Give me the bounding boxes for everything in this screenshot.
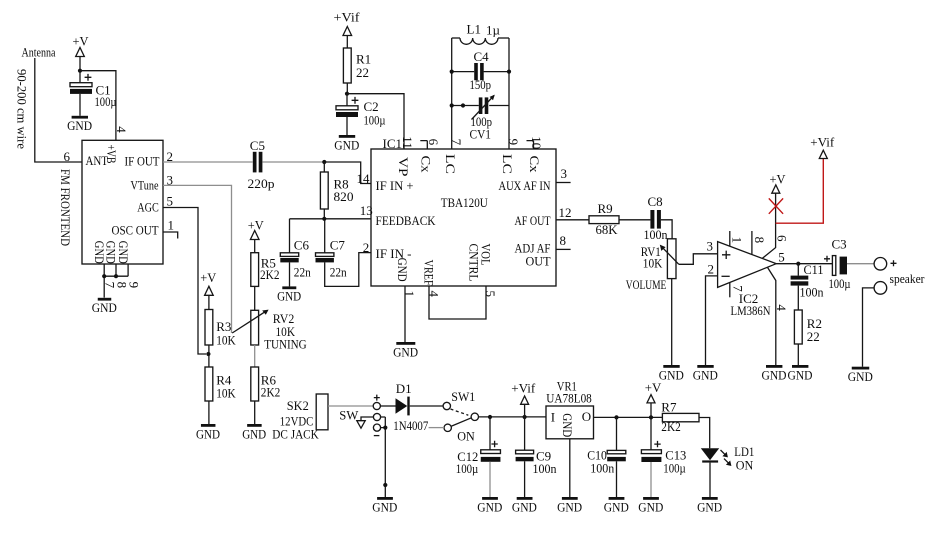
node +V/C1 junction xyxy=(78,69,82,73)
svg-text:GND: GND xyxy=(693,367,718,382)
capacitor C5 xyxy=(248,138,275,191)
svg-text:2K2: 2K2 xyxy=(260,267,280,282)
wire RV2 to R6 xyxy=(254,345,256,367)
svg-text:8: 8 xyxy=(560,233,567,248)
antenna wire label 90-200 cm wire xyxy=(15,69,30,149)
red X cut mark xyxy=(769,198,783,213)
svg-text:14: 14 xyxy=(357,171,371,186)
capacitor C6 xyxy=(280,219,298,287)
wire R7 to LED xyxy=(699,418,710,449)
speaker terminals xyxy=(874,258,896,295)
regulator VR1 UA78L08 box xyxy=(546,406,594,439)
VR1 pin labels xyxy=(551,409,591,437)
IC1 ADJ AF OUT label xyxy=(515,233,567,268)
svg-text:2K2: 2K2 xyxy=(261,385,281,400)
svg-text:GND: GND xyxy=(395,258,410,282)
IC1 AF OUT label xyxy=(515,205,572,228)
svg-text:7: 7 xyxy=(449,139,464,146)
wire frontend gnd pins xyxy=(104,264,128,298)
svg-text:+V: +V xyxy=(248,217,265,232)
svg-text:22: 22 xyxy=(356,65,369,80)
ground (R2) xyxy=(788,365,813,382)
svg-text:C3: C3 xyxy=(832,237,847,252)
IC2 pin 3 label xyxy=(707,238,714,253)
wire RV1 wiper to pin3 xyxy=(679,254,718,264)
node C10 rail xyxy=(614,415,618,419)
op-amp IC1 TBA120U box xyxy=(371,149,556,286)
svg-text:4: 4 xyxy=(114,126,129,133)
svg-text:VOLUME: VOLUME xyxy=(626,277,667,292)
svg-text:+Vif: +Vif xyxy=(810,134,835,149)
svg-text:100n: 100n xyxy=(644,227,668,242)
capacitor C8 xyxy=(644,194,668,242)
svg-text:4: 4 xyxy=(774,304,789,311)
svg-text:CV1: CV1 xyxy=(470,127,492,142)
wire SW1 lower stub xyxy=(429,427,444,429)
svg-text:SK2: SK2 xyxy=(287,398,309,413)
svg-text:GND: GND xyxy=(277,289,301,304)
jack minus terminal xyxy=(373,424,380,436)
ground (C13) xyxy=(638,497,663,514)
svg-text:GND: GND xyxy=(512,499,537,514)
svg-text:+Vif: +Vif xyxy=(334,10,361,25)
svg-text:GND: GND xyxy=(638,499,663,514)
svg-text:I: I xyxy=(551,410,555,425)
svg-text:5: 5 xyxy=(778,249,785,264)
svg-text:9: 9 xyxy=(127,282,142,289)
svg-text:speaker: speaker xyxy=(890,271,926,286)
wire IC2 output xyxy=(776,263,832,265)
svg-text:GND: GND xyxy=(116,241,131,264)
capacitor C1 xyxy=(70,71,92,116)
svg-text:GND: GND xyxy=(848,369,873,384)
frontend VTune label xyxy=(131,178,159,193)
resistor R6 xyxy=(251,367,259,424)
power +Vif supply (R1) xyxy=(334,10,361,49)
node CV1 left b xyxy=(461,103,465,107)
wire antenna xyxy=(35,58,82,162)
node R8/C6/C7/pin13 xyxy=(322,217,326,221)
power +V supply (R3) xyxy=(200,270,217,310)
wire AGC to R3/R4 node xyxy=(163,208,206,355)
wire +V to frontend pin4 xyxy=(80,71,116,141)
connector SK2 DC jack body xyxy=(316,394,328,430)
capacitor C10 xyxy=(607,417,626,497)
capacitor C4 xyxy=(452,49,509,92)
power +Vif supply (rail) xyxy=(511,381,536,418)
svg-text:1: 1 xyxy=(168,218,175,233)
node R3/R4/AGC xyxy=(206,352,210,356)
svg-text:10K: 10K xyxy=(216,332,236,347)
svg-text:AGC: AGC xyxy=(137,200,159,215)
R1 value labels xyxy=(356,52,371,81)
svg-text:GND: GND xyxy=(697,499,722,514)
IC1 pin 14 label xyxy=(357,171,371,186)
LED LD1 xyxy=(701,448,719,497)
potentiometer RV2 xyxy=(232,310,268,345)
svg-text:UA78L08: UA78L08 xyxy=(546,391,592,406)
ground (C2) xyxy=(334,135,359,152)
capacitor C12 xyxy=(481,417,501,497)
svg-text:C6: C6 xyxy=(294,238,310,253)
ground (R4) xyxy=(196,424,220,441)
IC2 pin 8 stub xyxy=(752,231,767,255)
wire IC2 pin4 to ground xyxy=(768,267,790,365)
ground (C6) xyxy=(277,286,301,303)
R2 value labels xyxy=(807,316,822,344)
svg-text:13: 13 xyxy=(360,203,373,218)
power +V supply (C1) xyxy=(73,34,90,71)
wire IC2 pin2 to ground xyxy=(706,276,718,365)
ground (IC2 pin4) xyxy=(762,365,787,382)
IC1 pin 9 LC xyxy=(500,139,521,174)
svg-text:C7: C7 xyxy=(330,238,346,253)
wire pin12 to R9 xyxy=(556,219,589,221)
svg-text:GND: GND xyxy=(334,137,359,152)
power +Vif supply (IC2) xyxy=(810,134,835,158)
svg-text:GND: GND xyxy=(242,426,266,441)
svg-text:C8: C8 xyxy=(648,194,663,209)
svg-text:AUX AF IN: AUX AF IN xyxy=(499,178,551,193)
IC2 pin 2 label xyxy=(708,261,715,276)
svg-text:Cx: Cx xyxy=(527,156,542,174)
C11 labels xyxy=(800,262,824,300)
frontend GND pin labels xyxy=(92,241,131,264)
node CV1 left a xyxy=(450,103,454,107)
svg-text:LC: LC xyxy=(443,154,458,174)
resistor R3 xyxy=(205,310,213,368)
FM FRONTEND label xyxy=(58,169,73,246)
wire node to IC1 pin14 xyxy=(324,162,371,184)
svg-text:+V: +V xyxy=(73,34,90,49)
svg-text:6: 6 xyxy=(426,139,441,146)
svg-text:TUNING: TUNING xyxy=(264,336,307,351)
wire tank left xyxy=(451,38,453,149)
jack plus terminal xyxy=(373,395,380,410)
resistor R2 xyxy=(794,310,802,365)
svg-text:C4: C4 xyxy=(474,49,490,64)
svg-text:OUT: OUT xyxy=(526,253,551,268)
node C12 rail xyxy=(488,415,492,419)
svg-text:C11: C11 xyxy=(804,262,824,277)
R4 value labels xyxy=(216,372,236,400)
ground (RV1) xyxy=(659,365,684,382)
C9 labels xyxy=(533,448,557,476)
IC1 FEEDBACK label xyxy=(376,213,437,228)
wire C3 to speaker xyxy=(847,263,874,265)
svg-text:C5: C5 xyxy=(250,138,265,153)
variable capacitor CV1 xyxy=(452,95,509,142)
capacitor C13 xyxy=(641,417,661,497)
wire VR1 gnd xyxy=(569,439,571,497)
IC1 pin 7 LC xyxy=(443,139,464,174)
svg-text:1N4007: 1N4007 xyxy=(393,418,428,433)
C1 value labels xyxy=(95,83,117,109)
wire OSC OUT stub xyxy=(163,232,178,239)
svg-text:100µ: 100µ xyxy=(364,112,386,127)
frontend AGC label xyxy=(137,200,159,215)
switch SW1 xyxy=(443,389,478,443)
VR1 labels xyxy=(546,379,592,406)
svg-text:2: 2 xyxy=(708,261,715,276)
svg-text:Cx: Cx xyxy=(418,156,433,174)
svg-text:100µ: 100µ xyxy=(456,461,479,476)
svg-text:8: 8 xyxy=(752,237,767,244)
resistor R9 xyxy=(589,201,619,237)
C13 labels xyxy=(663,447,686,475)
LED arrows xyxy=(721,450,732,466)
RV1 labels xyxy=(626,244,667,292)
svg-text:100µ: 100µ xyxy=(663,461,686,476)
frontend pin 6 label xyxy=(64,149,71,164)
R3 value labels xyxy=(216,319,236,348)
svg-text:R9: R9 xyxy=(598,201,613,216)
ground (IC1 pin1) xyxy=(393,342,418,359)
svg-text:+V: +V xyxy=(645,380,662,395)
wire R1 to IC1 pin 11 xyxy=(347,94,404,149)
antenna label xyxy=(22,45,56,60)
power +V supply (rail) xyxy=(645,380,662,417)
svg-text:LM386N: LM386N xyxy=(731,303,772,318)
frontend OSC OUT label xyxy=(112,223,159,238)
inductor L1 xyxy=(452,22,509,45)
svg-text:LC: LC xyxy=(500,154,515,174)
speaker label xyxy=(890,271,926,286)
ground (C12) xyxy=(477,497,502,514)
svg-text:O: O xyxy=(582,409,591,424)
capacitor C2 xyxy=(336,94,358,135)
ground (C9) xyxy=(512,497,537,514)
svg-text:DC JACK: DC JACK xyxy=(272,427,319,442)
frontend pin 2 label xyxy=(167,149,174,164)
IC2 pin 5 label xyxy=(778,249,785,264)
C10 labels xyxy=(587,448,614,476)
wire IC1 pin3 stub xyxy=(556,182,571,184)
svg-text:5: 5 xyxy=(483,291,498,298)
IC2 labels xyxy=(731,291,772,318)
svg-text:10: 10 xyxy=(529,136,544,149)
node jack gnd xyxy=(383,483,387,487)
IC1 IF IN+ label xyxy=(360,178,414,218)
IC1 IF IN- label xyxy=(363,240,412,261)
svg-text:TBA120U: TBA120U xyxy=(441,195,489,210)
wire C5 to R8 node xyxy=(262,161,324,163)
ground (C10) xyxy=(604,497,629,514)
svg-text:100µ: 100µ xyxy=(95,94,117,109)
svg-text:D1: D1 xyxy=(396,381,412,396)
ground (IC2 pin2) xyxy=(693,365,718,382)
ground (LD1) xyxy=(697,497,722,514)
power +V supply (IC2) xyxy=(770,171,787,193)
capacitor C7 xyxy=(316,219,372,287)
svg-text:IF OUT: IF OUT xyxy=(125,154,160,169)
svg-text:+Vif: +Vif xyxy=(511,381,536,396)
IC1 VOL CNTRL pin 5 rotated labels xyxy=(467,244,498,298)
svg-text:+VB: +VB xyxy=(104,145,119,164)
svg-text:ON: ON xyxy=(457,428,475,443)
SK2 labels xyxy=(272,398,319,442)
red wire pin6 to +Vif xyxy=(776,159,824,224)
svg-text:10K: 10K xyxy=(643,256,663,271)
wire RV1 to ground xyxy=(671,279,673,365)
node output/C11 xyxy=(796,262,800,266)
svg-text:3: 3 xyxy=(561,166,568,181)
svg-text:CNTRL: CNTRL xyxy=(467,244,482,282)
capacitor C9 xyxy=(516,417,534,497)
svg-text:L1: L1 xyxy=(467,22,481,37)
svg-text:22n: 22n xyxy=(294,264,311,279)
svg-text:GND: GND xyxy=(762,367,787,382)
node C4 left xyxy=(450,70,454,74)
IC2 pin 6 lead xyxy=(762,193,789,259)
power +V supply (R5) xyxy=(248,217,265,252)
svg-text:6: 6 xyxy=(64,149,71,164)
svg-text:Antenna: Antenna xyxy=(22,45,56,60)
LD1 labels xyxy=(734,444,754,473)
svg-text:VTune: VTune xyxy=(131,178,159,193)
svg-text:GND: GND xyxy=(604,499,629,514)
node C4 right xyxy=(507,70,511,74)
svg-text:VP: VP xyxy=(396,157,411,177)
frontend pin 1 label xyxy=(168,218,175,233)
svg-text:FM FRONTEND: FM FRONTEND xyxy=(58,169,73,246)
C2 value labels xyxy=(364,99,386,127)
R5 value labels xyxy=(260,255,280,282)
frontend +VB label xyxy=(104,145,119,164)
svg-text:22n: 22n xyxy=(330,264,347,279)
capacitor C3 xyxy=(824,237,851,291)
ground (speaker) xyxy=(848,367,873,384)
frontend pins 7 8 9 labels xyxy=(103,282,142,289)
svg-text:GND: GND xyxy=(788,367,813,382)
wire IC1 pin4 to pin5 xyxy=(429,286,486,319)
svg-text:6: 6 xyxy=(775,235,790,242)
frontend IF OUT label xyxy=(125,154,160,169)
IC1 GND pin 1 rotated labels xyxy=(395,258,417,297)
svg-text:3: 3 xyxy=(707,238,714,253)
svg-text:R7: R7 xyxy=(661,399,677,414)
frontend pin 4 label xyxy=(114,126,129,133)
svg-text:100n: 100n xyxy=(800,284,824,299)
svg-text:GND: GND xyxy=(659,367,684,382)
R8 value labels xyxy=(334,176,354,204)
C12 labels xyxy=(456,449,479,476)
svg-text:GND: GND xyxy=(67,118,92,133)
node gnd pin junctions xyxy=(102,274,118,278)
svg-text:22: 22 xyxy=(807,329,820,344)
svg-text:VREF: VREF xyxy=(422,260,437,286)
IC2 minus input mark xyxy=(722,275,730,277)
svg-text:1: 1 xyxy=(730,237,745,244)
svg-text:GND: GND xyxy=(92,300,117,315)
svg-text:IC1: IC1 xyxy=(383,136,403,151)
R6 value labels xyxy=(261,372,281,399)
potentiometer RV1 xyxy=(660,239,679,279)
op-amp IC2 triangle xyxy=(718,242,777,288)
IC1 AUX AF IN label xyxy=(499,166,568,193)
svg-text:GND: GND xyxy=(372,499,397,514)
svg-text:9: 9 xyxy=(506,139,521,146)
svg-text:11: 11 xyxy=(400,136,415,149)
wire main 12V rail xyxy=(479,416,547,418)
IC1 part number TBA120U xyxy=(441,195,489,210)
IC2 pin 7 stub xyxy=(730,283,746,298)
ground (C1) xyxy=(67,116,92,133)
svg-text:10K: 10K xyxy=(216,385,236,400)
jack switch terminal xyxy=(373,413,380,420)
ground (jack) xyxy=(372,497,397,514)
jack switch contact xyxy=(357,417,374,428)
wire feedback net xyxy=(290,218,372,220)
svg-text:220p: 220p xyxy=(248,176,275,191)
svg-text:GND: GND xyxy=(557,499,582,514)
IC2 plus input mark xyxy=(722,251,730,259)
wire C8 to RV1 xyxy=(661,220,672,239)
node +Vif rail xyxy=(523,415,527,419)
wire VR1 output rail xyxy=(594,416,663,418)
resistor R5 xyxy=(251,253,259,311)
svg-text:+V: +V xyxy=(200,270,217,285)
svg-text:IF IN +: IF IN + xyxy=(376,178,414,193)
frontend pin 3 label xyxy=(167,173,174,188)
ground (VR1) xyxy=(557,497,582,514)
resistor R4 xyxy=(205,367,213,424)
capacitor C11 xyxy=(791,264,809,310)
svg-text:100n: 100n xyxy=(590,461,614,476)
svg-text:820: 820 xyxy=(334,189,354,204)
svg-text:90-200 cm wire: 90-200 cm wire xyxy=(15,69,30,149)
ground (R6) xyxy=(242,424,266,441)
IC2 pin 1 stub xyxy=(730,231,745,246)
resistor R8 xyxy=(320,162,328,219)
svg-text:12: 12 xyxy=(559,205,572,220)
svg-text:GND: GND xyxy=(196,426,220,441)
IC1 pin 11 stub label VP xyxy=(396,136,415,176)
svg-text:150p: 150p xyxy=(470,77,492,92)
svg-text:100n: 100n xyxy=(533,461,557,476)
wire jack to plus terminal xyxy=(328,405,373,407)
svg-text:GND: GND xyxy=(560,413,575,437)
resistor R1 xyxy=(343,48,351,94)
D1 labels xyxy=(393,381,428,433)
ground (frontend) xyxy=(92,298,117,315)
wire R9 to C8 xyxy=(619,219,650,221)
IC1 pin 6 stub Cx xyxy=(418,139,441,173)
svg-text:AF OUT: AF OUT xyxy=(515,213,551,228)
svg-text:FEEDBACK: FEEDBACK xyxy=(376,213,437,228)
svg-text:GND: GND xyxy=(477,499,502,514)
wire IC1 pin8 stub xyxy=(556,248,571,250)
IC1 pin 10 stub Cx xyxy=(527,136,545,173)
wire jack minus junction xyxy=(381,417,386,497)
wire IC1 pin1 to ground xyxy=(404,286,406,342)
svg-text:5: 5 xyxy=(167,194,174,209)
svg-text:1µ: 1µ xyxy=(486,23,501,38)
svg-text:GND: GND xyxy=(393,344,418,359)
svg-text:2K2: 2K2 xyxy=(661,419,681,434)
wire tank right xyxy=(508,38,510,149)
frontend pin 5 label xyxy=(167,194,174,209)
RV2 labels xyxy=(264,311,307,351)
resistor R7 xyxy=(661,399,699,434)
svg-text:100µ: 100µ xyxy=(829,276,851,291)
diode D1 xyxy=(380,397,443,416)
wire speaker to ground xyxy=(863,288,875,367)
svg-text:SW1: SW1 xyxy=(451,389,475,404)
C7 labels xyxy=(330,238,347,280)
frontend ANT label xyxy=(86,153,109,168)
C6 labels xyxy=(294,238,311,280)
